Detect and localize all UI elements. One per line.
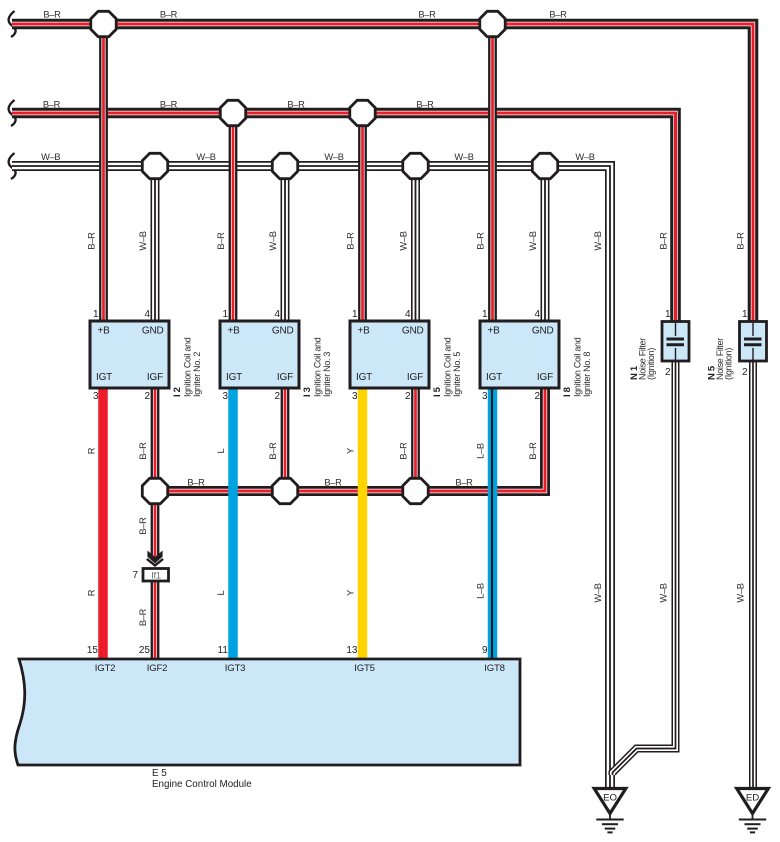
svg-text:B–R: B–R (43, 100, 61, 110)
ECM terminal name IGT3 (225, 663, 246, 674)
pin number 1 at x=675.5 y=317 (665, 309, 671, 320)
pin number 2 at x=752.5 y=375 (742, 367, 748, 378)
wire colour label R at x=103.5 y=593 (87, 589, 97, 596)
junction node B (octagon splice) (480, 11, 505, 36)
wire B-R from igniter I5 IGF pin 2 down to bus junction (411, 388, 420, 491)
svg-text:1: 1 (352, 309, 358, 320)
pin number 1 at x=103.5 y=317 (93, 309, 99, 320)
svg-text:B–R: B–R (216, 232, 226, 250)
wire colour label W–B at x=415.5 y=241 (399, 231, 409, 250)
svg-text:ED: ED (746, 793, 759, 804)
svg-text:GND: GND (142, 326, 164, 337)
svg-text:Ignition Coil and: Ignition Coil and (573, 337, 583, 397)
op-amp-style block: ignition coil and igniter I8 (480, 321, 559, 388)
svg-text:1: 1 (482, 309, 488, 320)
svg-text:I 2: I 2 (172, 387, 183, 397)
pin number 4 at x=545 y=317 (534, 309, 540, 320)
wire W-B drop to GND pin 4 of igniter I3 (281, 166, 290, 321)
svg-text:W–B: W–B (575, 152, 594, 162)
pin number 2 at x=545 y=399 (534, 391, 540, 402)
wire colour label R at x=103.5 y=451 (87, 447, 97, 454)
label for noise filter N1 (629, 338, 656, 380)
wire colour label Y at x=362.5 y=593 (346, 590, 356, 596)
wire colour label B–R at x=675.5 y=241 (659, 232, 669, 250)
svg-text:9: 9 (482, 645, 488, 656)
label for noise filter N5 (707, 338, 734, 380)
svg-text:1: 1 (665, 309, 671, 320)
wire B-R drop row1 to +B pin 1 of igniter I2 (99, 24, 108, 321)
svg-text:L–B: L–B (476, 443, 486, 459)
svg-text:2: 2 (742, 367, 748, 378)
svg-text:IGF: IGF (147, 372, 163, 383)
svg-text:(Ignition): (Ignition) (724, 348, 734, 380)
svg-text:+B: +B (488, 326, 501, 337)
ECM terminal name IGT2 (95, 663, 116, 674)
svg-text:7: 7 (132, 570, 138, 581)
wire colour label W–B at x=675.5 y=593 (659, 583, 669, 602)
svg-text:W–B: W–B (196, 152, 215, 162)
label E 5 Engine Control Module (152, 768, 252, 790)
svg-text:IGT: IGT (486, 372, 502, 383)
junction node C (octagon splice) (220, 100, 245, 125)
svg-text:Igniter No. 5: Igniter No. 5 (452, 352, 462, 397)
pin number 3 at x=103.5 y=399 (93, 391, 99, 402)
pin number 25 at x=155 y=653 (139, 645, 151, 656)
junction node L (octagon splice) (403, 478, 428, 503)
wire colour label W–B on row 3 (454, 152, 473, 162)
junction node K (octagon splice) (272, 478, 297, 503)
svg-text:+B: +B (98, 326, 111, 337)
svg-text:B–R: B–R (659, 232, 669, 250)
op-amp-style block: ignition coil and igniter I3 (220, 321, 299, 388)
wire B-R drop row1 to +B pin 1 of igniter I8 (488, 24, 497, 321)
wire colour label W–B on row 3 (324, 152, 343, 162)
svg-text:I 3: I 3 (302, 387, 313, 397)
svg-text:B–R: B–R (160, 100, 178, 110)
svg-text:B–R: B–R (138, 517, 148, 535)
svg-text:3: 3 (352, 391, 358, 402)
svg-text:Y: Y (346, 448, 356, 454)
svg-text:Ignition Coil and: Ignition Coil and (443, 337, 453, 397)
svg-text:GND: GND (402, 326, 424, 337)
wire colour label B–R on row 2 (43, 100, 61, 110)
junction node D (octagon splice) (350, 100, 375, 125)
svg-text:IGT2: IGT2 (95, 663, 116, 674)
label for igniter I8 (562, 337, 592, 397)
svg-text:4: 4 (144, 309, 150, 320)
wire colour label B–R on row 1 (549, 10, 567, 20)
svg-text:Igniter No. 2: Igniter No. 2 (192, 352, 202, 397)
svg-text:W–B: W–B (138, 231, 148, 250)
pin number 4 at x=415.5 y=317 (405, 309, 411, 320)
svg-text:IGF: IGF (407, 372, 423, 383)
svg-text:+B: +B (228, 326, 241, 337)
junction node A (octagon splice) (91, 11, 116, 36)
svg-text:B–R: B–R (187, 478, 205, 488)
svg-text:B–R: B–R (528, 442, 538, 460)
svg-text:B–R: B–R (87, 232, 97, 250)
svg-text:Y: Y (346, 590, 356, 596)
svg-text:2: 2 (405, 391, 411, 402)
svg-text:25: 25 (139, 645, 151, 656)
wire colour label B–R at x=545 y=451 (528, 442, 538, 460)
svg-text:W–B: W–B (324, 152, 343, 162)
wire colour label B–R on row 2 (416, 100, 434, 110)
svg-text:IGT8: IGT8 (484, 663, 505, 674)
svg-text:W–B: W–B (399, 231, 409, 250)
wire colour label B–R at x=415.5 y=451 (399, 442, 409, 460)
svg-text:R: R (87, 589, 97, 596)
wire B-R from junction If1 to ECM pin 25 (151, 581, 160, 660)
svg-text:3: 3 (93, 391, 99, 402)
ECM terminal name IGF2 (147, 663, 168, 674)
svg-text:GND: GND (532, 326, 554, 337)
svg-text:2: 2 (665, 367, 671, 378)
pin number 4 at x=155 y=317 (144, 309, 150, 320)
pin 7 of junction connector If1 (132, 570, 138, 581)
svg-text:B–R: B–R (416, 100, 434, 110)
wire B-R drop row2 to +B pin 1 of igniter I3 (229, 113, 238, 321)
svg-text:IGT5: IGT5 (354, 663, 375, 674)
pin number 3 at x=362.5 y=399 (352, 391, 358, 402)
ECM block E5 Engine Control Module (15, 659, 520, 765)
svg-text:1: 1 (222, 309, 228, 320)
wire colour label L–B at x=492.5 y=591 (476, 583, 486, 599)
svg-text:W–B: W–B (41, 152, 60, 162)
svg-text:B–R: B–R (736, 232, 746, 250)
svg-text:IGT: IGT (356, 372, 372, 383)
wire W-B main feed: left edge to EO ground, node at x=610 (9, 153, 610, 788)
wire colour label B–R at x=155 y=451 (138, 442, 148, 460)
wire colour label B–R on row 1 (160, 10, 178, 20)
wire B-R IGF bus: junction x=155 to igniter I8 IGF pin 2 (155, 388, 545, 491)
svg-text:15: 15 (87, 645, 99, 656)
wire colour label B–R on row 1 (418, 10, 436, 20)
junction connector If1 (143, 569, 169, 582)
svg-text:EO: EO (603, 793, 617, 804)
wire colour label Y at x=362.5 y=451 (346, 448, 356, 454)
wire L from igniter I3 IGT pin 3 to ECM pin 11 (IGT3) (228, 388, 238, 660)
svg-text:W–B: W–B (593, 231, 603, 250)
svg-text:B–R: B–R (268, 442, 278, 460)
wire colour label W–B at x=545 y=241 (528, 231, 538, 250)
svg-text:IGF2: IGF2 (147, 663, 168, 674)
svg-text:I 8: I 8 (562, 387, 573, 397)
wire colour label L at x=233 y=451 (216, 448, 226, 453)
pin number 2 at x=285 y=399 (274, 391, 280, 402)
op-amp-style block: ignition coil and igniter I5 (350, 321, 429, 388)
svg-text:W–B: W–B (736, 583, 746, 602)
svg-text:W–B: W–B (454, 152, 473, 162)
pin number 1 at x=492.5 y=317 (482, 309, 488, 320)
svg-text:L: L (216, 590, 226, 595)
svg-text:3: 3 (222, 391, 228, 402)
wire colour label B–R at x=155 y=617.5 (138, 608, 148, 626)
svg-text:IGT3: IGT3 (225, 663, 246, 674)
svg-text:B–R: B–R (138, 608, 148, 626)
svg-text:2: 2 (274, 391, 280, 402)
wire colour label B–R at x=285 y=451 (268, 442, 278, 460)
svg-text:B–R: B–R (399, 442, 409, 460)
wire colour label B–R at x=492.5 y=241 (476, 232, 486, 250)
junction node G (octagon splice) (403, 153, 428, 178)
svg-text:13: 13 (346, 645, 358, 656)
wire colour label B–R at x=233 y=241 (216, 232, 226, 250)
op-amp-style block: ignition coil and igniter I2 (90, 321, 169, 388)
svg-text:Ignition Coil and: Ignition Coil and (313, 337, 323, 397)
junction node E (octagon splice) (142, 153, 167, 178)
label for igniter I5 (432, 337, 462, 397)
svg-text:4: 4 (274, 309, 280, 320)
svg-text:B–R: B–R (324, 478, 342, 488)
svg-text:L–B: L–B (476, 583, 486, 599)
wire colour label W–B at x=155 y=241 (138, 231, 148, 250)
junction node F (octagon splice) (272, 153, 297, 178)
svg-text:W–B: W–B (268, 231, 278, 250)
svg-text:W–B: W–B (593, 583, 603, 602)
wire colour label B–R at x=103.5 y=241 (87, 232, 97, 250)
svg-text:Igniter No. 3: Igniter No. 3 (322, 352, 332, 397)
svg-text:R: R (87, 447, 97, 454)
svg-text:Igniter No. 8: Igniter No. 8 (582, 352, 592, 397)
wire colour label W–B at x=610 y=241 (593, 231, 603, 250)
wire colour label W–B at x=610 y=593 (593, 583, 603, 602)
wire W-B drop to GND pin 4 of igniter I8 (541, 166, 550, 321)
wire colour label W–B at x=285 y=241 (268, 231, 278, 250)
wire colour label B–R on row 2 (160, 100, 178, 110)
wire colour label B–R on IGF bus (455, 478, 473, 488)
connector arrow into junction If1 (147, 551, 163, 566)
svg-text:(Ignition): (Ignition) (646, 348, 656, 380)
svg-text:B–R: B–R (287, 100, 305, 110)
wire colour label W–B at x=752.5 y=593 (736, 583, 746, 602)
pin number 3 at x=233 y=399 (222, 391, 228, 402)
wire W-B drop to GND pin 4 of igniter I5 (411, 166, 420, 321)
wire W-B drop to GND pin 4 of igniter I2 (151, 166, 160, 321)
svg-text:1: 1 (93, 309, 99, 320)
pin number 3 at x=492.5 y=399 (482, 391, 488, 402)
pin number 15 at x=103 y=653 (87, 645, 99, 656)
wire colour label W–B on row 3 (41, 152, 60, 162)
pin number 11 at x=233 y=653 (218, 645, 229, 656)
pin number 2 at x=415.5 y=399 (405, 391, 411, 402)
pin number 9 at x=492.5 y=653 (482, 645, 488, 656)
svg-text:2: 2 (144, 391, 150, 402)
wire colour label W–B on row 3 (196, 152, 215, 162)
wire colour label B–R at x=155 y=526 (138, 517, 148, 535)
pin number 13 at x=362.5 y=653 (346, 645, 358, 656)
svg-text:B–R: B–R (160, 10, 178, 20)
wire colour label B–R on row 1 (43, 10, 61, 20)
capacitor noise filter N1 (662, 322, 689, 362)
svg-text:GND: GND (272, 326, 294, 337)
wire W-B from noise filter N5 pin 2 to ED ground (749, 361, 757, 788)
svg-text:B–R: B–R (43, 10, 61, 20)
svg-text:B–R: B–R (418, 10, 436, 20)
wire B-R drop row2 to +B pin 1 of igniter I5 (358, 113, 367, 321)
wire Y from igniter I5 IGT pin 3 to ECM pin 13 (IGT5) (358, 388, 368, 660)
wire colour label B–R on row 2 (287, 100, 305, 110)
wire R from igniter I2 IGT pin 3 to ECM pin 15 (IGT2) (98, 388, 108, 660)
capacitor noise filter N5 (740, 322, 767, 362)
wire colour label B–R at x=752.5 y=241 (736, 232, 746, 250)
ECM terminal name IGT5 (354, 663, 375, 674)
svg-text:B–R: B–R (455, 478, 473, 488)
wire colour label L–B at x=492.5 y=451 (476, 443, 486, 459)
label for igniter I3 (302, 337, 332, 397)
wire B-R from igniter I3 IGF pin 2 down to bus junction (281, 388, 290, 491)
svg-text:Engine Control Module: Engine Control Module (152, 779, 252, 790)
junction node J (octagon splice) (142, 478, 167, 503)
svg-text:1: 1 (742, 309, 748, 320)
svg-text:IGT: IGT (226, 372, 242, 383)
svg-text:B–R: B–R (476, 232, 486, 250)
wire B-R row 2: left edge to noise filter N1 pin 1 (9, 100, 676, 323)
wire L-B from igniter I8 IGT pin 3 to ECM pin 9 (IGT8) (487, 388, 497, 660)
svg-text:3: 3 (482, 391, 488, 402)
svg-text:11: 11 (218, 645, 229, 656)
svg-text:+B: +B (358, 326, 371, 337)
wire B-R from igniter I2 IGF pin 2 down to connector arrow (151, 388, 160, 557)
wire colour label B–R on IGF bus (324, 478, 342, 488)
junction node H (octagon splice) (532, 153, 557, 178)
wire colour label B–R on IGF bus (187, 478, 205, 488)
svg-text:B–R: B–R (138, 442, 148, 460)
svg-text:4: 4 (534, 309, 540, 320)
pin number 1 at x=752.5 y=317 (742, 309, 748, 320)
wire colour label L at x=233 y=593 (216, 590, 226, 595)
svg-text:W–B: W–B (659, 583, 669, 602)
wire colour label W–B on row 3 (575, 152, 594, 162)
svg-text:B–R: B–R (549, 10, 567, 20)
svg-text:I 5: I 5 (432, 386, 443, 397)
wire colour label B–R at x=362.5 y=241 (346, 232, 356, 250)
pin number 1 at x=233 y=317 (222, 309, 228, 320)
svg-text:IGT: IGT (96, 372, 112, 383)
svg-text:4: 4 (405, 309, 411, 320)
pin number 2 at x=675.5 y=375 (665, 367, 671, 378)
svg-text:If1: If1 (151, 569, 161, 580)
label for igniter I2 (172, 337, 202, 397)
wire B-R row 1: left edge to noise filter N5 pin 1 (9, 11, 753, 323)
svg-text:W–B: W–B (528, 231, 538, 250)
ground EO (594, 789, 626, 833)
pin number 1 at x=362.5 y=317 (352, 309, 358, 320)
svg-text:2: 2 (534, 391, 540, 402)
svg-text:L: L (216, 448, 226, 453)
pin number 4 at x=285 y=317 (274, 309, 280, 320)
svg-text:IGF: IGF (537, 372, 553, 383)
svg-text:Ignition Coil and: Ignition Coil and (183, 337, 193, 397)
pin number 2 at x=155 y=399 (144, 391, 150, 402)
svg-text:IGF: IGF (277, 372, 293, 383)
wire W-B from noise filter N1 pin 2 joining EO ground wire (613, 361, 676, 775)
ECM terminal name IGT8 (484, 663, 505, 674)
svg-text:B–R: B–R (346, 232, 356, 250)
svg-text:E 5: E 5 (152, 768, 167, 779)
ground ED (737, 789, 769, 833)
